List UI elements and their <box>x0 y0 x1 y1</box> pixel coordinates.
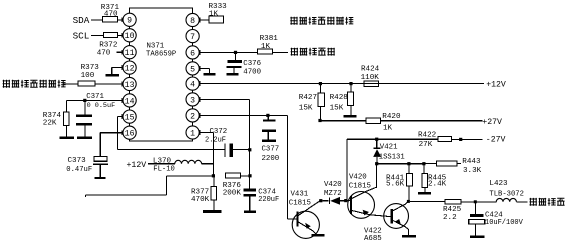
svg-text:4: 4 <box>190 81 195 90</box>
svg-text:V431: V431 <box>291 190 309 198</box>
svg-text:16: 16 <box>125 130 135 139</box>
svg-text:8: 8 <box>190 17 195 26</box>
svg-text:R422: R422 <box>418 132 437 140</box>
svg-text:C1815: C1815 <box>349 182 371 190</box>
svg-text:22K: 22K <box>43 119 57 127</box>
svg-text:+12V: +12V <box>127 161 147 170</box>
svg-text:A685: A685 <box>364 235 382 242</box>
svg-text:5: 5 <box>190 65 195 74</box>
svg-text:27K: 27K <box>419 141 433 149</box>
svg-text:V420: V420 <box>324 181 342 189</box>
svg-text:1K: 1K <box>261 43 271 51</box>
svg-text:6: 6 <box>190 49 195 58</box>
svg-text:R377: R377 <box>191 188 209 196</box>
svg-text:2.2: 2.2 <box>443 214 457 222</box>
svg-text:7: 7 <box>190 33 195 42</box>
svg-text:C372: C372 <box>210 128 228 136</box>
svg-text:3.3K: 3.3K <box>463 167 482 175</box>
svg-text:470: 470 <box>97 50 111 58</box>
svg-text:0.47uF: 0.47uF <box>66 166 92 174</box>
svg-text:FL-10: FL-10 <box>153 165 175 173</box>
svg-text:R427: R427 <box>299 94 317 102</box>
svg-text:4700: 4700 <box>243 69 261 77</box>
svg-text:15K: 15K <box>299 104 313 112</box>
svg-text:R424: R424 <box>361 66 380 74</box>
svg-text:C376: C376 <box>243 60 261 68</box>
svg-text:2.4K: 2.4K <box>428 181 447 189</box>
svg-text:15: 15 <box>125 114 135 123</box>
svg-text:R428: R428 <box>330 94 349 102</box>
svg-text:12: 12 <box>125 65 135 74</box>
svg-text:V421: V421 <box>380 143 398 151</box>
svg-text:2.2uF: 2.2uF <box>205 136 226 144</box>
svg-text:200K: 200K <box>223 189 242 197</box>
svg-text:10uF/100V: 10uF/100V <box>485 219 524 227</box>
svg-text:+27V: +27V <box>482 118 502 127</box>
svg-text:5.6K: 5.6K <box>386 181 405 189</box>
svg-text:1SS131: 1SS131 <box>379 153 405 161</box>
svg-text:9: 9 <box>127 17 132 26</box>
svg-text:2200: 2200 <box>262 155 280 163</box>
svg-text:TA8659P: TA8659P <box>146 51 176 59</box>
svg-text:N371: N371 <box>147 43 165 51</box>
svg-text:1K: 1K <box>383 125 393 133</box>
svg-text:11: 11 <box>125 49 135 58</box>
svg-text:C373: C373 <box>68 157 87 165</box>
svg-text:470: 470 <box>104 11 118 19</box>
svg-text:R373: R373 <box>81 64 100 72</box>
svg-text:SDA: SDA <box>73 15 90 26</box>
svg-text:C1815: C1815 <box>289 199 311 207</box>
svg-text:R420: R420 <box>382 113 401 121</box>
svg-text:TLB-3072: TLB-3072 <box>489 191 524 199</box>
svg-text:2: 2 <box>190 112 195 121</box>
svg-text:220uF: 220uF <box>258 196 279 204</box>
svg-text:+12V: +12V <box>486 80 506 89</box>
svg-text:L423: L423 <box>489 180 508 188</box>
svg-text:SCL: SCL <box>73 30 90 41</box>
svg-text:1: 1 <box>190 129 195 138</box>
svg-text:R381: R381 <box>260 35 279 43</box>
svg-text:C424: C424 <box>485 211 503 219</box>
svg-text:-27V: -27V <box>486 136 506 145</box>
svg-text:13: 13 <box>125 81 135 90</box>
svg-text:L370: L370 <box>153 157 172 165</box>
svg-text:470K: 470K <box>191 196 210 204</box>
svg-text:3: 3 <box>190 96 195 105</box>
svg-text:C371: C371 <box>86 93 104 101</box>
svg-text:100: 100 <box>81 72 95 80</box>
svg-text:14: 14 <box>125 97 135 106</box>
svg-text:0 0.5uF: 0 0.5uF <box>87 102 116 110</box>
svg-text:110K: 110K <box>361 74 380 82</box>
svg-text:R443: R443 <box>462 158 481 166</box>
svg-text:10: 10 <box>125 32 135 41</box>
svg-text:C377: C377 <box>262 145 280 153</box>
svg-text:15K: 15K <box>330 104 344 112</box>
svg-text:1K: 1K <box>209 10 219 18</box>
svg-text:R372: R372 <box>99 41 118 49</box>
svg-text:V420: V420 <box>349 173 367 181</box>
svg-text:MZ72: MZ72 <box>324 190 342 198</box>
